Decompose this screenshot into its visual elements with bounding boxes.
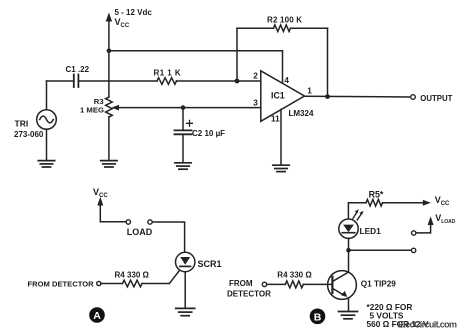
svg-text:C1 .22: C1 .22 [66,65,90,74]
svg-text:IC1: IC1 [271,90,285,100]
svg-text:1 MEG: 1 MEG [80,105,104,114]
badge A [89,307,105,323]
junction dot R2 tap [235,79,240,84]
svg-text:R4 330 Ω: R4 330 Ω [277,271,312,280]
terminal Vload [412,231,416,235]
svg-text:R5*: R5* [369,190,384,200]
terminal load return [411,248,415,252]
junction dot Vcc rail [107,49,112,54]
capacitor C1 [47,75,158,88]
svg-text:VCC: VCC [435,195,450,207]
wire R4 to base [303,283,332,285]
svg-text:2: 2 [253,72,258,81]
resistor R5 [348,200,430,207]
svg-text:OUTPUT: OUTPUT [420,94,452,103]
ground (C2) [175,163,191,169]
resistor R4 (A) [123,280,143,287]
ground (op-amp pin 11) [273,165,289,171]
wire R1 to pin 2 [177,80,261,82]
svg-text:R1 1 K: R1 1 K [154,69,182,78]
power arrow Vcc (circuit A) [97,197,126,222]
wire detector to R4 [101,283,122,285]
LED1 [339,219,358,272]
svg-text:A: A [93,310,101,322]
SCR1 [176,252,195,308]
svg-text:B: B [314,311,322,323]
svg-text:TRI: TRI [15,118,29,128]
transistor Q1 [328,271,357,311]
wire switch to SCR anode [152,222,184,252]
wire output [305,95,411,98]
svg-text:273-060: 273-060 [14,130,44,139]
terminal OUTPUT [411,95,416,100]
svg-text:R2 100 K: R2 100 K [267,16,302,25]
wire R3 wiper to pin 3 [118,107,261,109]
wire detector to R4 (B) [267,283,286,285]
svg-text:LM324: LM324 [289,109,314,118]
svg-text:FROM: FROM [229,279,253,288]
ground (R3) [101,161,117,167]
switch contact left (LOAD) [126,220,130,224]
transducer TRI 273-060 [37,81,57,160]
svg-text:FROM DETECTOR: FROM DETECTOR [28,280,95,289]
svg-text:VCC: VCC [93,187,108,199]
svg-text:LED1: LED1 [360,226,382,236]
wire cathode to load terminal [351,249,412,251]
svg-text:11: 11 [271,114,280,123]
svg-text:DETECTOR: DETECTOR [227,289,271,298]
wire Vcc rail to pin 4 [109,51,283,83]
potentiometer R3 [106,97,119,160]
resistor R2 feedback [237,25,328,97]
ground (Q1 emitter) [339,312,358,319]
junction dot output [325,94,330,99]
svg-text:R4 330 Ω: R4 330 Ω [115,270,150,279]
resistor R1 [157,78,177,85]
wire R5 to LED anode [347,203,349,219]
wire R4 to gate [142,283,169,285]
svg-text:3: 3 [253,98,258,107]
junction dot LED cathode [346,248,351,253]
svg-text:ElecCircuit.com: ElecCircuit.com [398,319,457,329]
svg-text:VCC: VCC [115,17,130,29]
capacitor C2 [175,108,192,163]
junction dot C2 [181,105,186,110]
power arrow Vload [416,216,434,233]
ground (TRI) [38,161,54,167]
power rail Vcc arrow [106,13,112,51]
op-amp U1 triangle [261,71,305,122]
wire Vcc line down to R3 [108,51,110,97]
terminal FROM DETECTOR (A) [97,281,101,285]
switch contact right (LOAD) [148,220,152,224]
svg-text:SCR1: SCR1 [198,259,222,269]
svg-text:LOAD: LOAD [127,227,153,237]
wire pin 11 to ground [280,110,282,166]
svg-text:1: 1 [307,86,312,95]
ground (SCR cathode) [176,308,195,315]
wire SCR gate [169,270,179,283]
badge B [310,309,326,325]
svg-text:Q1 TIP29: Q1 TIP29 [361,280,396,289]
LED emission arrows [353,209,364,220]
svg-text:C2 10 µF: C2 10 µF [192,129,225,138]
svg-text:4: 4 [284,76,289,85]
resistor R4 (B) [285,281,303,288]
svg-text:VLOAD: VLOAD [435,213,456,225]
terminal FROM DETECTOR (B) [262,282,266,286]
label + (C2 polarity) [187,120,193,126]
svg-text:5 - 12 Vdc: 5 - 12 Vdc [115,8,153,17]
